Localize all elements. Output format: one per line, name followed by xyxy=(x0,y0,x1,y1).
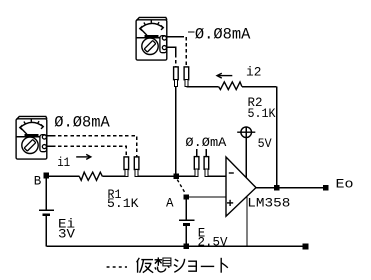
node square Eo terminal xyxy=(323,185,329,191)
legend katakana ト xyxy=(221,258,228,273)
legend kanji 想 xyxy=(155,257,171,272)
node junction (inverting input node) xyxy=(173,173,179,179)
node B square xyxy=(43,173,49,179)
op-amp U1 triangle xyxy=(226,157,256,216)
arrow i2 (pointing left) xyxy=(217,73,232,78)
wire node A to op-amp non-inverting input xyxy=(189,196,226,198)
probe pair i2 right probe xyxy=(184,67,189,87)
svg-text:3V: 3V xyxy=(58,228,76,242)
op-amp V- pin down to rail xyxy=(246,196,248,246)
svg-text:Ø.Ø8mA: Ø.Ø8mA xyxy=(195,25,251,43)
svg-text:i1: i1 xyxy=(57,156,70,170)
svg-text:5.1K: 5.1K xyxy=(107,197,139,211)
resistor R1 zigzag xyxy=(79,172,102,180)
svg-text:i2: i2 xyxy=(246,65,261,79)
multimeter M1 (top ammeter reading 0.08mA) xyxy=(136,17,167,60)
wire right probe to R2 xyxy=(186,86,218,88)
legend dashed line sample xyxy=(107,266,127,268)
battery Ei wire from B down xyxy=(45,178,47,209)
node A square xyxy=(184,194,189,199)
legend katakana ョ xyxy=(188,261,196,271)
svg-text:2.5V: 2.5V xyxy=(198,235,228,249)
probe pair i1 left probe xyxy=(124,157,129,177)
probe pair i2 left probe xyxy=(174,67,179,87)
wire long vertical from i2 left probe down to inverting node xyxy=(175,86,177,173)
svg-text:A: A xyxy=(166,196,174,210)
battery E short plate xyxy=(183,223,190,226)
svg-text:Eo: Eo xyxy=(336,178,354,192)
wire junction to 0.0mA left probe xyxy=(176,175,198,177)
wire M2 lower terminal to i1 left probe (dashed) xyxy=(47,146,126,157)
wire M2 upper terminal to i1 right probe (dashed) xyxy=(47,136,137,157)
node square right end of rail xyxy=(303,244,309,250)
legend katakana ー xyxy=(201,265,214,267)
wire 0.0mA right probe to op-amp inverting input xyxy=(206,175,226,177)
wire i1 right probe to junction xyxy=(136,175,174,177)
wire node B to R1 xyxy=(49,175,79,177)
multimeter M2 (left ammeter reading 0.08mA) xyxy=(16,116,47,159)
probe pair i1 right probe xyxy=(134,157,139,177)
svg-text:5.1K: 5.1K xyxy=(248,107,276,121)
battery Ei wire down to rail corner xyxy=(45,216,47,246)
svg-text:5V: 5V xyxy=(258,137,272,151)
arrow i1 (pointing right) xyxy=(76,154,91,159)
battery E wire from node A down xyxy=(185,200,187,220)
legend katakana シ xyxy=(174,259,185,272)
node square output junction xyxy=(274,185,280,191)
svg-text:Ø.Ø8mA: Ø.Ø8mA xyxy=(54,114,110,132)
resistor R2 zigzag xyxy=(219,82,242,90)
battery E long plate xyxy=(179,219,194,221)
node square on bottom rail under E xyxy=(184,244,190,250)
battery E wire down to rail xyxy=(185,226,187,246)
svg-text:Ø.ØmA: Ø.ØmA xyxy=(185,136,227,150)
probe pair 0.0mA left probe xyxy=(194,149,199,177)
battery Ei long plate xyxy=(39,209,54,211)
wire R2 to corner xyxy=(242,86,277,88)
wire corner down to output node xyxy=(276,87,278,188)
op-amp plus sign xyxy=(227,200,233,206)
wire bottom rail xyxy=(46,245,305,247)
probe pair 0.0mA right probe xyxy=(204,149,209,177)
wire op-amp output to Eo terminal xyxy=(256,187,326,189)
legend kanji 仮 xyxy=(137,258,154,273)
wire R1 to i1 left probe xyxy=(102,175,127,177)
svg-text:LM358: LM358 xyxy=(247,196,290,210)
op-amp minus sign xyxy=(229,172,234,174)
wire M1 lower terminal to left probe (dashed) xyxy=(167,47,176,66)
wire leader dash to 0.08mA label xyxy=(188,31,194,33)
power supply symbol 5V (circle with cross) xyxy=(237,127,255,178)
svg-text:B: B xyxy=(34,174,42,188)
battery Ei short plate xyxy=(43,213,50,216)
wire M1 upper terminal to right probe (dashed) xyxy=(167,37,186,67)
wire virtual-short dashed diagonal junction to node A xyxy=(177,180,185,194)
